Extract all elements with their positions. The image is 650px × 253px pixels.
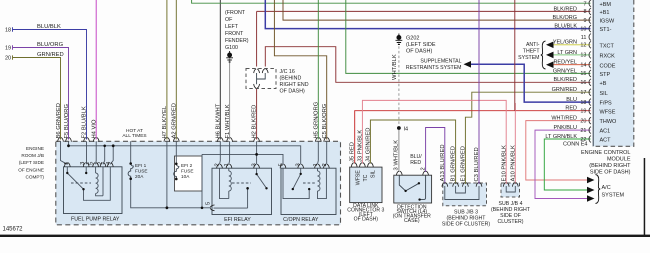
svg-text:ROOM J/B: ROOM J/B bbox=[21, 153, 44, 158]
svg-text:LT GRN: LT GRN bbox=[557, 50, 577, 56]
svg-text:RESTRAINTS SYSTEM: RESTRAINTS SYSTEM bbox=[406, 65, 462, 71]
svg-text:3: 3 bbox=[80, 162, 86, 165]
svg-text:J5 RED: J5 RED bbox=[350, 142, 356, 162]
svg-text:F/PS: F/PS bbox=[600, 101, 613, 107]
svg-text:2: 2 bbox=[215, 163, 221, 166]
svg-text:9: 9 bbox=[583, 18, 586, 24]
svg-text:BLU/BLK: BLU/BLK bbox=[554, 24, 577, 30]
svg-text:H5 GRN/ORG: H5 GRN/ORG bbox=[313, 101, 319, 138]
svg-text:H4 VIO: H4 VIO bbox=[92, 119, 98, 138]
svg-text:ENGINE CONTROL: ENGINE CONTROL bbox=[581, 150, 631, 156]
svg-text:E1 GRN/RED: E1 GRN/RED bbox=[461, 146, 467, 181]
svg-text:10A: 10A bbox=[181, 174, 190, 179]
svg-text:2: 2 bbox=[98, 162, 104, 165]
svg-text:MODULE: MODULE bbox=[607, 156, 631, 162]
svg-text:OF DASH): OF DASH) bbox=[280, 89, 306, 95]
svg-text:WFSE: WFSE bbox=[600, 109, 616, 115]
svg-text:A10 PNK/BLK: A10 PNK/BLK bbox=[510, 145, 516, 182]
svg-text:5: 5 bbox=[206, 202, 212, 205]
svg-text:TC: TC bbox=[363, 174, 369, 181]
svg-text:5: 5 bbox=[279, 163, 285, 166]
svg-text:BLK/RED: BLK/RED bbox=[553, 6, 577, 12]
svg-text:12: 12 bbox=[580, 43, 586, 49]
svg-text:EFI 2: EFI 2 bbox=[181, 163, 193, 168]
svg-text:F2 BLU/BLK: F2 BLU/BLK bbox=[82, 106, 88, 138]
svg-text:CLUSTER): CLUSTER) bbox=[498, 219, 524, 225]
svg-text:CODE: CODE bbox=[600, 63, 616, 69]
svg-text:+BM: +BM bbox=[600, 2, 612, 8]
svg-text:B1 GRN/RED: B1 GRN/RED bbox=[451, 146, 457, 181]
svg-text:SIDE OF DASH): SIDE OF DASH) bbox=[590, 169, 631, 175]
svg-text:OF: OF bbox=[225, 17, 233, 23]
svg-text:+B1: +B1 bbox=[600, 10, 610, 16]
svg-text:F1 WHT/BLK: F1 WHT/BLK bbox=[225, 104, 231, 138]
svg-text:10: 10 bbox=[580, 26, 586, 32]
svg-text:3 WHT/BLK: 3 WHT/BLK bbox=[394, 140, 400, 171]
svg-text:FUSE: FUSE bbox=[181, 168, 194, 173]
svg-text:RIGHT END: RIGHT END bbox=[280, 82, 309, 88]
svg-text:J/C 16: J/C 16 bbox=[280, 69, 295, 75]
svg-text:IGSW: IGSW bbox=[600, 19, 615, 25]
svg-text:LEFT: LEFT bbox=[225, 24, 239, 30]
svg-text:19: 19 bbox=[580, 109, 586, 115]
svg-text:E10 PNK/BLK: E10 PNK/BLK bbox=[501, 145, 507, 182]
svg-text:(BEHIND RIGHT: (BEHIND RIGHT bbox=[589, 163, 631, 169]
svg-text:2: 2 bbox=[322, 163, 328, 166]
svg-text:LT GRN/BLK: LT GRN/BLK bbox=[545, 134, 577, 140]
svg-text:F5 BLU/ORG: F5 BLU/ORG bbox=[64, 104, 70, 139]
svg-text:18: 18 bbox=[580, 100, 586, 106]
svg-text:STP: STP bbox=[600, 72, 611, 78]
svg-text:11: 11 bbox=[581, 35, 587, 41]
svg-text:SIDE OF CLUSTER): SIDE OF CLUSTER) bbox=[442, 222, 490, 228]
svg-text:SUB J/B 4: SUB J/B 4 bbox=[499, 201, 523, 207]
svg-text:FENDER): FENDER) bbox=[225, 38, 249, 44]
svg-text:18: 18 bbox=[5, 28, 11, 34]
svg-text:COMPT): COMPT) bbox=[26, 175, 45, 180]
svg-text:BLK/RED: BLK/RED bbox=[553, 77, 577, 83]
svg-text:BLU: BLU bbox=[566, 97, 577, 103]
svg-text:8: 8 bbox=[583, 9, 586, 15]
svg-text:21: 21 bbox=[580, 128, 586, 134]
svg-text:ENGINE: ENGINE bbox=[26, 146, 44, 151]
svg-text:(LEFT SIDE: (LEFT SIDE bbox=[19, 160, 44, 165]
svg-text:SIL: SIL bbox=[600, 91, 608, 97]
svg-text:HOT AT: HOT AT bbox=[126, 128, 143, 134]
svg-text:THEFT: THEFT bbox=[523, 49, 541, 55]
svg-text:A2 GRN/RED: A2 GRN/RED bbox=[171, 103, 177, 138]
svg-text:H2 BLK/RED: H2 BLK/RED bbox=[252, 105, 258, 139]
svg-text:(BEHIND RIGHT: (BEHIND RIGHT bbox=[491, 207, 531, 213]
svg-text:(BEHIND RIGHT: (BEHIND RIGHT bbox=[447, 215, 487, 221]
svg-text:19: 19 bbox=[5, 46, 11, 52]
svg-text:B6 GRN/RED: B6 GRN/RED bbox=[56, 103, 62, 138]
svg-text:BLU/BLK: BLU/BLK bbox=[37, 24, 61, 30]
svg-text:ACT: ACT bbox=[600, 138, 612, 144]
svg-text:ANTI-: ANTI- bbox=[526, 42, 540, 48]
svg-text:SIDE OF: SIDE OF bbox=[500, 213, 521, 219]
svg-text:16: 16 bbox=[580, 80, 586, 86]
svg-text:SUB J/B 3: SUB J/B 3 bbox=[454, 209, 478, 215]
svg-text:PNK/BLU: PNK/BLU bbox=[553, 125, 577, 131]
svg-text:20A: 20A bbox=[135, 174, 144, 179]
svg-text:WFSE: WFSE bbox=[355, 170, 361, 186]
svg-text:AC1: AC1 bbox=[600, 129, 611, 135]
svg-text:H7 BLK/YEL: H7 BLK/YEL bbox=[162, 105, 168, 138]
svg-text:5: 5 bbox=[89, 162, 95, 165]
svg-text:RXCK: RXCK bbox=[600, 54, 616, 60]
svg-text:CONN E4: CONN E4 bbox=[563, 142, 587, 148]
svg-text:BLK/ORG: BLK/ORG bbox=[553, 15, 577, 21]
svg-text:FUSE: FUSE bbox=[135, 168, 148, 173]
svg-text:(BEHIND: (BEHIND bbox=[280, 76, 302, 82]
svg-text:20: 20 bbox=[5, 56, 11, 62]
svg-text:A/C: A/C bbox=[602, 185, 611, 191]
svg-text:SIL: SIL bbox=[370, 170, 376, 178]
svg-text:TXCT: TXCT bbox=[600, 43, 615, 49]
svg-text:FRONT: FRONT bbox=[225, 31, 244, 37]
svg-text:(FRONT: (FRONT bbox=[225, 10, 246, 16]
svg-text:145672: 145672 bbox=[3, 227, 24, 233]
svg-text:WHT/BLK: WHT/BLK bbox=[392, 54, 398, 80]
svg-text:ALL TIMES: ALL TIMES bbox=[122, 133, 146, 139]
svg-text:J3 PNK/BLK: J3 PNK/BLK bbox=[358, 130, 364, 162]
svg-text:1: 1 bbox=[224, 163, 230, 166]
svg-text:H6 BLK/WHT: H6 BLK/WHT bbox=[215, 103, 221, 138]
svg-text:I4: I4 bbox=[404, 127, 409, 133]
svg-text:1: 1 bbox=[64, 162, 70, 165]
svg-text:(LEFT SIDE: (LEFT SIDE bbox=[406, 42, 436, 48]
svg-text:15: 15 bbox=[580, 71, 586, 77]
svg-text:14: 14 bbox=[580, 63, 586, 69]
svg-text:3: 3 bbox=[296, 163, 302, 166]
svg-text:C/OPN RELAY: C/OPN RELAY bbox=[283, 217, 319, 223]
svg-text:7: 7 bbox=[583, 1, 586, 7]
svg-text:A13 BLU/RED: A13 BLU/RED bbox=[440, 144, 446, 181]
svg-text:SUPPLEMENTAL: SUPPLEMENTAL bbox=[420, 59, 461, 65]
svg-text:C3 BLU/RED: C3 BLU/RED bbox=[474, 147, 480, 181]
svg-text:CASE): CASE) bbox=[404, 218, 420, 224]
svg-text:BLU/ORG: BLU/ORG bbox=[37, 42, 64, 48]
svg-text:SYSTEM: SYSTEM bbox=[602, 193, 625, 199]
svg-text:17: 17 bbox=[580, 90, 586, 96]
svg-text:EFI RELAY: EFI RELAY bbox=[224, 217, 251, 223]
svg-text:THWO: THWO bbox=[600, 119, 618, 125]
svg-text:GRN/RED: GRN/RED bbox=[37, 52, 64, 58]
svg-text:OF DASH): OF DASH) bbox=[354, 217, 379, 223]
svg-text:G100: G100 bbox=[225, 45, 238, 51]
svg-text:+B: +B bbox=[600, 81, 607, 87]
svg-text:OF ENGINE: OF ENGINE bbox=[18, 167, 44, 172]
svg-text:G202: G202 bbox=[406, 36, 419, 42]
svg-text:C5 BLK/ORG: C5 BLK/ORG bbox=[322, 103, 328, 138]
svg-text:RED: RED bbox=[565, 106, 577, 112]
svg-text:1: 1 bbox=[313, 163, 319, 166]
svg-text:YEL/GRN: YEL/GRN bbox=[553, 40, 577, 46]
svg-text:WHT/RED: WHT/RED bbox=[551, 116, 577, 122]
svg-text:2: 2 bbox=[420, 167, 426, 170]
svg-text:RED: RED bbox=[410, 160, 421, 166]
svg-text:GRN/RED: GRN/RED bbox=[552, 87, 577, 93]
svg-text:GRN/YEL: GRN/YEL bbox=[553, 68, 577, 74]
svg-text:FUEL PUMP RELAY: FUEL PUMP RELAY bbox=[71, 216, 120, 222]
svg-text:ST1-: ST1- bbox=[600, 27, 612, 33]
svg-text:OF DASH): OF DASH) bbox=[406, 49, 432, 55]
svg-text:EFI 1: EFI 1 bbox=[135, 163, 147, 168]
svg-text:SYSTEM: SYSTEM bbox=[518, 55, 539, 61]
svg-text:J4 GRN/RED: J4 GRN/RED bbox=[366, 128, 372, 162]
svg-text:20: 20 bbox=[580, 118, 586, 124]
svg-text:3: 3 bbox=[252, 163, 258, 166]
svg-text:RED/YEL: RED/YEL bbox=[553, 60, 577, 66]
svg-text:13: 13 bbox=[580, 53, 586, 59]
